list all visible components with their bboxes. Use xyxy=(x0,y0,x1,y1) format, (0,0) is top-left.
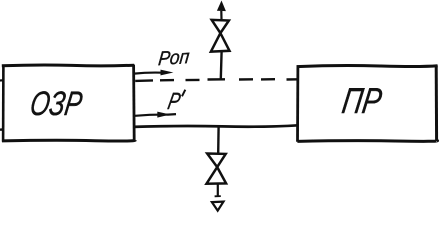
svg-text:Роп: Роп xyxy=(157,46,190,70)
valve V1 stem lower (to dashed pipe) xyxy=(220,52,223,79)
svg-text:Р: Р xyxy=(166,88,183,115)
wire stub on image left edge (lower) xyxy=(0,128,3,131)
valve V2 body upper triangle xyxy=(207,154,226,168)
label ОЗР xyxy=(28,85,85,123)
arrow: flow Р' xyxy=(135,112,176,118)
valve V2 stem lower xyxy=(217,184,219,197)
label Роп xyxy=(157,46,190,70)
svg-text:ПР: ПР xyxy=(340,80,385,121)
block ПР box xyxy=(297,65,438,142)
valve V2 (bottom, drain) stem upper (from pipe) xyxy=(217,127,220,153)
svg-text:ОЗР: ОЗР xyxy=(28,85,85,123)
block ОЗР box xyxy=(2,65,136,142)
label Р' xyxy=(166,88,183,115)
wire stub on image left edge (upper) xyxy=(0,79,3,81)
valve V1 body upper triangle xyxy=(212,20,229,33)
valve V2 outlet arrow (hollow, down) xyxy=(212,202,224,211)
arrow: flow Роп xyxy=(134,70,173,76)
prime mark of Р' xyxy=(182,90,185,97)
valve V1 stem upper xyxy=(220,11,222,19)
wire: overflow pipe (dashed line) xyxy=(135,79,298,81)
label ПР xyxy=(340,80,385,121)
valve V2 body lower triangle xyxy=(207,167,227,184)
valve V1 body lower triangle xyxy=(211,33,230,52)
valve V1 (top, vent) : outlet arrow xyxy=(217,1,226,12)
wire: main pipe line xyxy=(133,125,298,127)
valve V2 stem end tick xyxy=(215,195,221,197)
